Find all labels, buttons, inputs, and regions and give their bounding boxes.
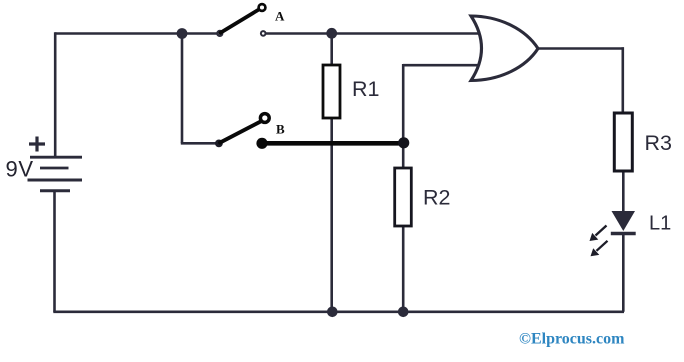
svg-text:R3: R3 <box>645 131 673 155</box>
svg-text:B: B <box>276 122 285 137</box>
svg-text:A: A <box>275 9 285 24</box>
svg-text:L1: L1 <box>649 213 671 235</box>
svg-text:9V: 9V <box>6 157 34 182</box>
svg-text:R1: R1 <box>352 77 379 101</box>
svg-text:©Elprocus.com: ©Elprocus.com <box>519 331 625 348</box>
svg-text:R2: R2 <box>423 186 450 210</box>
